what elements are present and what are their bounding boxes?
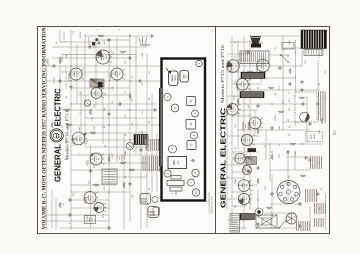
svg-text:117V: 117V bbox=[103, 213, 105, 218]
note text block corner bbox=[297, 221, 310, 231]
dial pointer drawing in box bbox=[167, 176, 184, 196]
junction dots panel 2 bbox=[243, 55, 302, 216]
svg-text:1M: 1M bbox=[235, 205, 237, 208]
wire bus network panel 2 bbox=[227, 35, 326, 230]
tube V1 12BE6 converter bbox=[96, 50, 112, 64]
note text block A right margin bbox=[315, 203, 326, 214]
panel divider rule bbox=[215, 27, 217, 234]
tube socket base diagram big circle bbox=[277, 181, 300, 204]
notes block parts list bbox=[143, 156, 160, 171]
battery plates B1 bbox=[117, 155, 125, 161]
svg-text:10K: 10K bbox=[235, 124, 237, 128]
note text block bottom right bbox=[319, 91, 326, 121]
svg-text:2.2M: 2.2M bbox=[142, 53, 144, 58]
oscillator adjust rect R20 bbox=[168, 157, 187, 169]
ground symbols panel 2 bbox=[298, 88, 319, 228]
svg-text:AVC: AVC bbox=[288, 39, 291, 44]
tube V2 12BA6 IF amplifier bbox=[70, 68, 84, 80]
wire bus network panel 1 bbox=[44, 30, 160, 230]
tube V6 35W4 rectifier bbox=[84, 192, 98, 204]
tube V14 bbox=[241, 134, 255, 145]
svg-text:VOLUME R-17, MOST-OFTEN-NEEDED: VOLUME R-17, MOST-OFTEN-NEEDED 1957 RADI… bbox=[43, 27, 48, 229]
svg-text:220K: 220K bbox=[66, 139, 68, 144]
switch SW1 bbox=[280, 54, 289, 63]
svg-text:220K: 220K bbox=[235, 179, 237, 184]
tube type labels panel 1 bbox=[46, 58, 112, 204]
svg-text:1M: 1M bbox=[289, 108, 291, 111]
capacitors panel 2 bbox=[246, 50, 320, 225]
svg-text:OSC: OSC bbox=[178, 160, 180, 165]
dial lamp dashed box bbox=[306, 131, 323, 141]
electrolytic cluster top bbox=[89, 37, 130, 47]
tube V15 with IF can bbox=[235, 153, 248, 163]
tube socket bottom view S2 bbox=[148, 207, 159, 218]
IF transformer T2 can bbox=[90, 79, 104, 87]
note text block B right margin bbox=[315, 218, 324, 227]
power transformer choke black block bbox=[301, 30, 327, 49]
resistors panel 2 bbox=[237, 68, 323, 209]
svg-text:SW: SW bbox=[295, 195, 297, 198]
tube V18 dark wedge bbox=[243, 166, 252, 175]
tube V9 12BE6 bbox=[227, 60, 240, 73]
tube V17 bbox=[238, 193, 252, 204]
resistors panel 1 bbox=[51, 35, 148, 208]
capacitors panel 1 bbox=[52, 38, 143, 217]
svg-text:35W4: 35W4 bbox=[84, 197, 88, 204]
svg-text:OSC: OSC bbox=[57, 97, 59, 102]
pointer arrow in box bbox=[166, 68, 171, 73]
svg-text:22K: 22K bbox=[125, 60, 127, 64]
svg-text:Models P710 and P711: Models P710 and P711 bbox=[65, 111, 70, 161]
svg-text:12K: 12K bbox=[94, 104, 96, 108]
svg-text:3.3M: 3.3M bbox=[79, 127, 81, 132]
oscillator coil box bbox=[230, 214, 240, 233]
svg-text:470K: 470K bbox=[234, 95, 236, 100]
switch SW2 bottom bbox=[278, 220, 287, 229]
ground symbols panel 1 bbox=[107, 34, 161, 230]
svg-text:GENERAL ELECTRIC: GENERAL ELECTRIC bbox=[219, 107, 228, 208]
terminal strip under block bbox=[304, 50, 323, 56]
battery plates panel 2 bbox=[243, 122, 248, 130]
svg-text:OUT: OUT bbox=[279, 153, 281, 158]
svg-text:GENERAL: GENERAL bbox=[53, 144, 62, 182]
electrolytic dashed box bbox=[295, 92, 317, 122]
tube V8 below medallion bbox=[72, 132, 87, 145]
svg-text:12K: 12K bbox=[248, 104, 250, 108]
svg-text:OPEN: OPEN bbox=[175, 75, 177, 81]
speaker output frame with diagonals bbox=[256, 215, 277, 228]
svg-text:117V: 117V bbox=[289, 213, 291, 218]
alignment step circled numbers top row bbox=[164, 93, 179, 177]
bold alignment chart box bbox=[162, 59, 206, 201]
svg-text:©1957 SUPREME PUBL.: ©1957 SUPREME PUBL. bbox=[208, 191, 211, 214]
svg-text:AVC: AVC bbox=[103, 39, 106, 44]
IF transformer T5 dark can bbox=[241, 72, 265, 78]
output transformer T4 box bbox=[240, 51, 269, 64]
spoked socket circle bbox=[286, 213, 297, 224]
svg-text:12BA6: 12BA6 bbox=[72, 138, 76, 146]
svg-text:R20: R20 bbox=[174, 160, 176, 165]
svg-text:PRINTED IN U.S.A.: PRINTED IN U.S.A. bbox=[211, 196, 214, 214]
tube V10 12BA6 bbox=[257, 59, 270, 72]
speaker LS1 bbox=[250, 37, 261, 48]
svg-text:C3 .05: C3 .05 bbox=[54, 77, 56, 84]
svg-text:50C5: 50C5 bbox=[226, 110, 229, 116]
svg-text:150K: 150K bbox=[295, 151, 297, 156]
svg-text:LAMP: LAMP bbox=[313, 133, 316, 139]
pilot lamp circle bbox=[255, 208, 263, 216]
tube V11 12AV6 bbox=[237, 79, 251, 91]
notes block 2 bbox=[146, 139, 161, 151]
trimmer circle above box left bbox=[152, 196, 158, 202]
svg-text:R9 1M: R9 1M bbox=[80, 32, 82, 38]
svg-text:34: 34 bbox=[332, 130, 337, 135]
svg-text:22K: 22K bbox=[305, 60, 307, 64]
svg-text:PILOT: PILOT bbox=[311, 133, 313, 139]
speaker label box bbox=[282, 43, 294, 50]
trimmer capacitor C1 bbox=[84, 100, 90, 106]
tube V4 oscillator section bbox=[91, 88, 104, 99]
IF transformer T6 dark can bbox=[240, 92, 264, 98]
svg-text:OUT: OUT bbox=[112, 153, 114, 158]
tube V5 50C5 output bbox=[90, 153, 104, 165]
svg-text:1M: 1M bbox=[104, 108, 106, 111]
trimmer capacitor C2 bbox=[126, 142, 133, 149]
tube V7 audio output with dark anode bbox=[94, 203, 106, 213]
svg-text:10K: 10K bbox=[66, 54, 68, 58]
tube V16 bbox=[238, 180, 252, 192]
phono jack box bbox=[84, 216, 95, 224]
gang label rounded tags bbox=[169, 71, 189, 86]
junction dots panel 1 bbox=[59, 35, 147, 192]
alignment step circled numbers bottom row bbox=[188, 60, 203, 196]
svg-text:150K: 150K bbox=[125, 151, 127, 156]
svg-text:12BE6: 12BE6 bbox=[230, 65, 233, 73]
svg-text:OSC: OSC bbox=[235, 79, 237, 84]
svg-text:35W4: 35W4 bbox=[249, 123, 252, 130]
svg-text:2.2M: 2.2M bbox=[319, 53, 321, 58]
value labels panel 2 bbox=[233, 39, 327, 226]
note text block mid bbox=[311, 156, 322, 169]
tube V12 50C5 bbox=[227, 104, 241, 116]
IF can small bbox=[246, 157, 257, 165]
padder capacitor symbol in box bbox=[191, 159, 195, 162]
loop antenna dark bar bbox=[240, 214, 255, 220]
coupling capacitor C5 dark bbox=[98, 82, 103, 88]
tube labels panel 2 bbox=[226, 65, 259, 130]
alignment box step notch bbox=[160, 88, 162, 166]
svg-text:12BE6: 12BE6 bbox=[46, 58, 50, 66]
note text block lower bbox=[306, 189, 317, 202]
tube V13 35W4 bbox=[249, 117, 263, 129]
svg-text:470K: 470K bbox=[56, 116, 58, 121]
svg-text:50C5: 50C5 bbox=[86, 159, 90, 166]
tube socket bottom view S1 bbox=[140, 194, 151, 205]
outer page border frame bbox=[38, 27, 330, 234]
GE monogram medallion bbox=[50, 129, 63, 142]
loop antenna symbol bbox=[139, 37, 150, 45]
svg-text:GANG: GANG bbox=[171, 75, 174, 82]
tube V3 12AV6 detector bbox=[111, 68, 125, 80]
svg-text:SW: SW bbox=[132, 195, 134, 198]
IF small dark rect bbox=[248, 148, 257, 152]
svg-text:3.3M: 3.3M bbox=[261, 77, 263, 82]
output transformer T3 box bbox=[102, 169, 117, 184]
socket square left of box bbox=[153, 208, 160, 216]
component value labels panel 1 bbox=[54, 28, 151, 224]
svg-text:12AV6: 12AV6 bbox=[108, 73, 112, 81]
filter choke dark block bbox=[134, 135, 148, 145]
svg-text:12BA6: 12BA6 bbox=[67, 73, 71, 81]
loop antenna rectangle outline bbox=[62, 55, 136, 63]
svg-text:12BA6: 12BA6 bbox=[256, 65, 259, 73]
transformer squares T1 T2 T3 bbox=[186, 97, 196, 150]
svg-text:Models P715 and P716: Models P715 and P716 bbox=[220, 45, 225, 103]
margin credit note bbox=[208, 191, 214, 214]
